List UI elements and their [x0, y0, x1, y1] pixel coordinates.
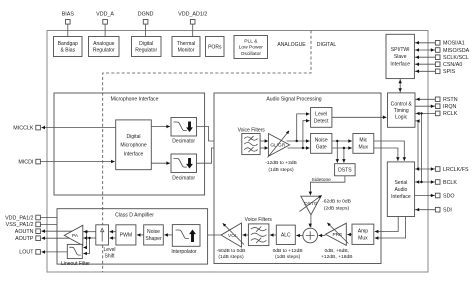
wire DMI to Decimator 1 [151, 125, 170, 128]
wire PWM to Level Shift B [110, 236, 116, 240]
block Amp Mux [352, 224, 374, 244]
svg-text:Bandgap: Bandgap [58, 41, 78, 47]
svg-text:(1dB steps): (1dB steps) [275, 254, 301, 260]
block Digital Regulator [132, 37, 162, 57]
block Voice Filters (ADC path) [238, 127, 266, 154]
svg-text:RSTN: RSTN [443, 97, 458, 103]
block PLL & Low Power Oscillator [234, 36, 268, 59]
svg-text:GL/GR: GL/GR [270, 143, 285, 149]
analogue/digital dashed boundary [103, 31, 311, 225]
svg-text:SCLK/SCL: SCLK/SCL [443, 55, 469, 61]
chip outline [47, 31, 428, 273]
amplifier PA (Class D power stage) [64, 225, 83, 245]
svg-text:MOSI/A1: MOSI/A1 [443, 41, 465, 47]
block Analogue Regulator [89, 37, 120, 57]
svg-text:(1dB steps): (1dB steps) [218, 254, 244, 260]
svg-text:Audio: Audio [394, 187, 407, 193]
svg-text:Microphone Interface: Microphone Interface [111, 97, 159, 103]
wire BCLK tap joining RCLK line [420, 112, 422, 183]
svg-text:SPI/TWI: SPI/TWI [391, 47, 410, 53]
svg-text:Logic: Logic [395, 115, 408, 121]
block Control & Timing Logic [388, 93, 416, 127]
svg-text:Analogue: Analogue [93, 41, 115, 47]
block Level Detect [311, 108, 332, 128]
wire Voice Filters to GL/GR R [260, 146, 268, 150]
svg-text:Level: Level [104, 247, 116, 253]
pin VSS_PA1/2 [6, 222, 57, 228]
svg-text:Low Power: Low Power [239, 45, 264, 51]
svg-text:AOUTN: AOUTN [15, 229, 34, 235]
svg-text:Decimator: Decimator [172, 139, 195, 145]
svg-text:Interface: Interface [391, 194, 411, 200]
svg-text:0dB to +12dB: 0dB to +12dB [273, 248, 304, 254]
svg-text:Microphone: Microphone [120, 143, 147, 149]
svg-text:PA: PA [72, 233, 79, 239]
pin DGND [138, 12, 154, 37]
svg-text:LOUT: LOUT [19, 250, 34, 256]
block Serial Audio Interface [387, 162, 414, 217]
svg-text:Shift: Shift [104, 253, 115, 259]
svg-text:Voice Filters: Voice Filters [245, 217, 273, 223]
svg-text:Interface: Interface [390, 62, 410, 68]
svg-text:Serial: Serial [394, 180, 407, 186]
pin AOUTP [15, 236, 70, 242]
svg-text:BIAS: BIAS [62, 12, 75, 18]
pin LRCLK/FS [415, 167, 469, 173]
pin RCLK [415, 111, 458, 117]
pin RSTN [415, 97, 458, 103]
svg-text:Amp: Amp [358, 229, 369, 235]
wire VOL to Interpolator [201, 233, 221, 237]
svg-text:Oscillator: Oscillator [241, 51, 262, 57]
block PWM [116, 225, 136, 245]
svg-text:+12dB, +18dB: +12dB, +18dB [321, 254, 353, 260]
svg-text:IRQN: IRQN [443, 104, 457, 110]
block Lineout Filter [61, 244, 90, 267]
svg-text:-12dB to +3dB: -12dB to +3dB [265, 160, 297, 166]
svg-text:Audio Signal Processing: Audio Signal Processing [266, 97, 321, 103]
amplifier GL/GR (ADC PGA) [268, 131, 290, 158]
svg-text:DGND: DGND [138, 12, 154, 18]
block Voice Filters (DAC path) [245, 217, 273, 245]
svg-text:VSS_PA1/2: VSS_PA1/2 [6, 222, 34, 228]
wire Decimator 2 to Voice Filters (ADC) [197, 146, 241, 163]
wire DSTG to summer [308, 215, 312, 227]
wire DSTS sidetone to DSTG [309, 176, 345, 195]
pin SDI [415, 207, 452, 213]
block Level Shift [96, 225, 116, 260]
svg-text:Class D Amplifier: Class D Amplifier [115, 212, 154, 218]
wire PRE to summer [319, 234, 326, 237]
svg-text:ALC: ALC [281, 233, 291, 239]
wire Mic Mux L to Serial Audio Interface [374, 141, 406, 161]
svg-text:& Bias: & Bias [61, 48, 76, 54]
svg-text:Mic: Mic [359, 138, 367, 144]
svg-text:Regulator: Regulator [93, 48, 115, 54]
pin IRQN [415, 104, 457, 110]
svg-text:RCLK: RCLK [443, 111, 458, 117]
pin VDD_AD1/2 [178, 12, 207, 37]
pin SCLK/SCL [414, 55, 468, 61]
wire Interpolator to Noise Shaper [164, 233, 172, 237]
svg-text:SDO: SDO [443, 193, 455, 199]
svg-text:DSTG: DSTG [304, 201, 318, 207]
pin AOUTN [15, 229, 72, 235]
pin MICDI [18, 159, 114, 165]
svg-text:Gate: Gate [316, 145, 327, 151]
wire GL/GR out R to Noise Gate and Level Detect [288, 119, 310, 150]
pin VDD_PA1/2 [5, 215, 57, 221]
wire Voice Filters to VOL [243, 233, 249, 237]
svg-text:Sidetone: Sidetone [311, 177, 331, 183]
wire PWM to Level Shift A [110, 230, 116, 234]
svg-text:Timing: Timing [394, 108, 409, 114]
pin MISO/SDA [414, 48, 469, 54]
svg-text:Interpolator: Interpolator [171, 249, 197, 255]
block Decimator 2 (right channel) [171, 154, 197, 181]
section Audio Signal Processing [214, 93, 381, 264]
wire Level Shift to PA A with lineout tap [82, 230, 96, 249]
pin CSN/A0 [414, 62, 462, 68]
svg-text:DSTS: DSTS [338, 168, 352, 174]
svg-text:SDI: SDI [443, 208, 452, 214]
pin MICCLK [13, 125, 115, 131]
wire Level Detect to Control & Timing Logic [332, 116, 387, 120]
svg-text:Interface: Interface [124, 151, 144, 157]
svg-text:(2dB steps): (2dB steps) [324, 206, 350, 212]
svg-text:Mux: Mux [359, 145, 369, 151]
wire Serial Audio Interface to Amp Mux 2 [375, 217, 406, 240]
svg-text:Control &: Control & [391, 101, 413, 107]
svg-text:PORs: PORs [208, 44, 222, 50]
svg-text:Shaper: Shaper [145, 236, 162, 242]
wire DMI to Decimator 2 [151, 161, 170, 165]
wire Amp Mux to PRE [347, 233, 352, 237]
svg-text:DIGITAL: DIGITAL [317, 42, 337, 48]
pin SDO [415, 193, 455, 199]
svg-text:MICDI: MICDI [18, 159, 33, 165]
block Noise Gate [311, 134, 332, 154]
analogue/digital dashed boundary lower segment [102, 245, 104, 272]
wire GL/GR out L to Noise Gate and Level Detect [287, 112, 310, 143]
amplifier DSTG (sidetone gain) [300, 195, 322, 215]
svg-text:VDD_AD1/2: VDD_AD1/2 [178, 12, 207, 18]
svg-text:CSN/A0: CSN/A0 [443, 62, 462, 68]
svg-text:Level: Level [315, 112, 327, 118]
svg-text:Monitor: Monitor [178, 48, 195, 54]
block Bandgap & Bias [54, 37, 83, 57]
wire Noise Gate to Mic Mux L with DSTS tap [332, 139, 352, 163]
wire Mic Mux R to Serial Audio Interface [374, 148, 400, 161]
block PORs [206, 37, 225, 57]
pin BCLK [415, 180, 458, 186]
svg-text:Voice Filters: Voice Filters [238, 127, 266, 133]
block Interpolator [171, 225, 200, 255]
pin SPIS [414, 69, 455, 75]
svg-text:AOUTP: AOUTP [15, 236, 34, 242]
svg-text:Thermal: Thermal [177, 41, 196, 47]
block Digital Microphone Interface [116, 120, 152, 170]
summer node (+) [303, 228, 318, 243]
block DSTS [335, 164, 356, 176]
svg-text:Decimator: Decimator [172, 175, 195, 181]
svg-text:ANALOGUE: ANALOGUE [277, 42, 306, 48]
svg-text:Lineout Filter: Lineout Filter [61, 261, 90, 267]
svg-text:Mux: Mux [358, 236, 368, 242]
pin MOSI/A1 [414, 41, 464, 47]
svg-text:Noise: Noise [147, 229, 160, 235]
svg-text:PLL &: PLL & [244, 39, 258, 45]
block Mic Mux [353, 134, 374, 154]
svg-text:Regulator: Regulator [135, 48, 157, 54]
wire ALC to Voice Filters (DAC) [270, 233, 276, 237]
wire Noise Gate to Mic Mux R with DSTS tap [332, 146, 352, 163]
block Thermal Monitor [172, 37, 200, 57]
pin VDD_A [96, 12, 114, 37]
wire Serial Audio Interface to Amp Mux 1 [375, 217, 398, 234]
wire Voice Filters to GL/GR L [260, 139, 268, 143]
pin LOUT [19, 250, 67, 256]
section Microphone Interface [54, 93, 205, 195]
amplifier PRE [325, 223, 348, 246]
wire LRCLK tap to Control & Timing Logic [415, 119, 420, 170]
svg-text:-62dB to 0dB: -62dB to 0dB [322, 199, 352, 205]
svg-text:Slave: Slave [394, 54, 407, 60]
block ALC [276, 225, 295, 244]
svg-text:Noise: Noise [315, 138, 328, 144]
section Class D Amplifier [57, 209, 208, 264]
wire summer to ALC [296, 234, 303, 237]
svg-text:(1dB steps): (1dB steps) [268, 167, 294, 173]
wire Noise Shaper to PWM [137, 233, 144, 237]
svg-text:VDD_PA1/2: VDD_PA1/2 [5, 215, 33, 221]
svg-text:Digital: Digital [126, 134, 140, 140]
wire Decimator 1 to Voice Filters (ADC) [197, 127, 241, 143]
svg-text:-90dB to 0dB: -90dB to 0dB [217, 248, 247, 254]
svg-text:MISO/SDA: MISO/SDA [443, 48, 470, 54]
svg-text:BCLK: BCLK [443, 180, 457, 186]
svg-text:VDD_A: VDD_A [96, 12, 114, 18]
svg-text:SPIS: SPIS [443, 69, 456, 75]
svg-text:Detect: Detect [314, 119, 329, 125]
block SPI/TWI Slave Interface U-SPI [386, 34, 414, 78]
block Decimator 1 (left channel) [171, 118, 197, 145]
svg-text:LRCLK/FS: LRCLK/FS [443, 167, 469, 173]
amplifier VOL [221, 223, 244, 247]
svg-text:Digital: Digital [139, 41, 153, 47]
svg-text:MICCLK: MICCLK [13, 125, 34, 131]
svg-text:PWM: PWM [120, 233, 132, 239]
block Noise Shaper [144, 225, 164, 245]
pin BIAS [62, 12, 75, 37]
wire Level Shift to PA B with lineout tap [82, 236, 96, 255]
svg-text:0dB, +6dB,: 0dB, +6dB, [325, 248, 350, 254]
wire SPI/TWI to Control bus (bidirectional) [398, 79, 402, 93]
